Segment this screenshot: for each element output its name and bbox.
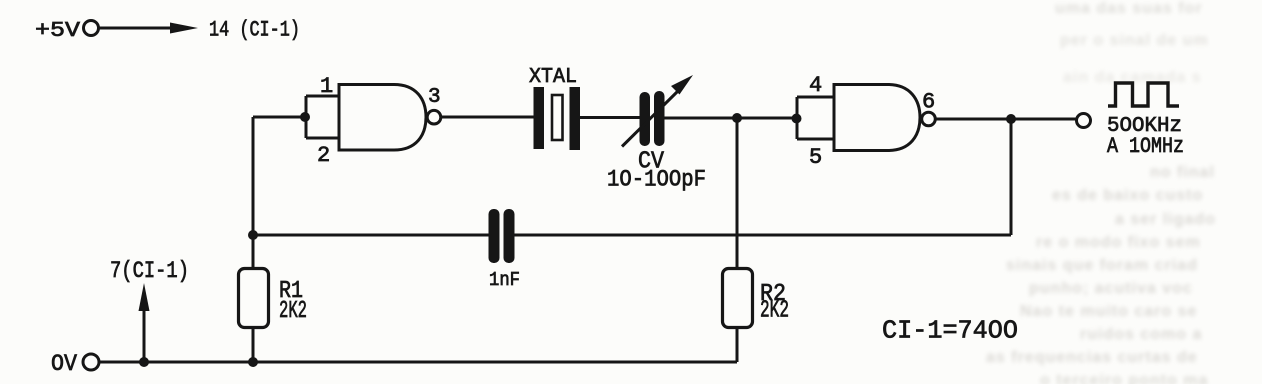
wire pin 4 stub [797, 96, 834, 99]
node junction pin7 arrow [139, 357, 149, 367]
wire gate1 output to XTAL [441, 116, 535, 119]
terminal 0V open circle [83, 354, 99, 370]
arrowhead to 14 (CI-1) [170, 23, 198, 34]
svg-text:1: 1 [320, 74, 333, 99]
svg-text:CI-1=74OO: CI-1=74OO [882, 316, 1018, 346]
wire gate1 input tie bar [305, 96, 308, 138]
arrowhead pin 7 [139, 283, 150, 311]
svg-text:2K2: 2K2 [279, 298, 307, 325]
wire pin 7 arrow stem [143, 305, 146, 362]
square wave symbol [1108, 83, 1179, 106]
terminal output open circle [1077, 114, 1091, 128]
nand gate U1b inverter bubble [922, 112, 936, 126]
wire feedback left segment [253, 234, 489, 237]
svg-text:2: 2 [317, 143, 330, 168]
crystal XTAL right plate [570, 87, 581, 150]
node junction output feedback [1006, 114, 1016, 124]
wire R1 bottom [252, 328, 255, 363]
wire ground rail [100, 361, 738, 364]
capacitor CV adjust arrow [622, 89, 680, 147]
node junction feedback left [248, 230, 258, 240]
wire feedback right segment [515, 234, 1012, 237]
svg-text:A 1OMHz: A 1OMHz [1107, 134, 1184, 159]
wire left rail horizontal to gate 1 input [253, 116, 306, 119]
wire left rail vertical [252, 117, 255, 269]
node junction R1 bottom [248, 357, 258, 367]
capacitor 1nF left plate [489, 209, 500, 263]
svg-text:OV: OV [51, 351, 77, 377]
svg-text:7(CI-1): 7(CI-1) [110, 258, 189, 284]
node junction R2 top net [732, 113, 742, 123]
wire pin 5 stub [797, 138, 834, 141]
svg-text:+5V: +5V [35, 19, 80, 43]
svg-text:1nF: 1nF [489, 269, 520, 291]
nand gate U1b body [834, 85, 920, 151]
wire +5V arrow to pin 14 [100, 27, 177, 30]
wire gate2 input tie bar [796, 97, 799, 139]
wire pin 2 stub [306, 137, 339, 140]
capacitor CV left plate [640, 92, 651, 146]
capacitor CV right plate [654, 91, 665, 146]
wire XTAL to CV [580, 116, 641, 119]
svg-text:1O-1OOpF: 1O-1OOpF [607, 167, 706, 193]
svg-text:5: 5 [809, 145, 822, 170]
wire output feedback vertical [1010, 119, 1013, 235]
wire CV to gate 2 input [665, 117, 798, 120]
svg-text:4: 4 [809, 73, 822, 98]
capacitor CV arrowhead [671, 75, 693, 95]
wire R2 bottom [736, 328, 739, 363]
crystal XTAL left plate [534, 87, 545, 149]
node junction gate2 input [792, 114, 802, 124]
svg-text:14 (CI-1): 14 (CI-1) [209, 18, 300, 43]
nand gate U1a inverter bubble [427, 110, 441, 124]
capacitor 1nF right plate [504, 209, 515, 263]
terminal +5V open circle [84, 21, 99, 36]
resistor R2 body [723, 269, 753, 328]
svg-text:6: 6 [922, 90, 935, 115]
svg-text:2K2: 2K2 [760, 298, 789, 325]
node junction gate1 input [300, 112, 310, 122]
wire gate2 output to output terminal [935, 118, 1076, 121]
svg-text:3: 3 [428, 86, 441, 109]
wire pin 1 stub [306, 95, 339, 98]
nand gate U1a body [339, 85, 426, 151]
resistor R1 body [239, 269, 269, 328]
wire R2 net vertical [736, 118, 739, 269]
crystal XTAL body [552, 95, 563, 140]
svg-text:XTAL: XTAL [529, 66, 577, 89]
